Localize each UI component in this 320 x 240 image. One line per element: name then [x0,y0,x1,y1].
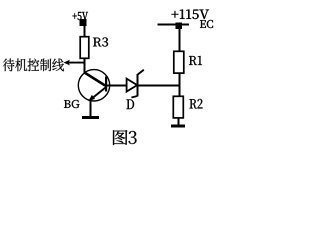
label EC [200,20,213,28]
label R2 [190,99,203,109]
wire R3 to transistor [84,59,86,74]
transistor BG emitter arrowhead [88,95,95,101]
diode D cathode bottom tail [131,96,137,98]
transistor BG base bar [105,77,107,92]
transistor BG collector diagonal [84,72,105,85]
wire R1 to R2 [179,73,181,96]
label +115V [172,10,210,20]
+115V terminal square [176,23,183,30]
diode D cathode top tail [138,70,144,75]
wire standby control line [68,62,86,64]
wire diode to divider node [139,85,181,87]
arrowhead on standby control line [64,60,70,66]
resistor R2 [173,96,183,118]
label standby control line 待机控制线 [3,59,64,72]
ground bar (divider) [171,125,185,128]
label +5V [73,12,89,20]
caption 图3 [113,130,128,145]
wire rail to R1 [179,29,181,51]
wire R2 to ground [178,118,180,125]
resistor R3 [80,37,89,59]
label BG [64,100,80,108]
+115V rail [158,24,190,26]
label R3 [93,38,108,47]
wire emitter to ground [90,100,92,117]
diode D triangle [127,79,138,92]
+5V terminal square [80,19,87,26]
label D [127,100,135,110]
label R1 [189,56,202,65]
transistor BG circle [78,70,109,101]
wire +5V terminal to R3 [84,26,86,37]
transistor BG emitter diagonal [90,88,105,100]
wire base to diode D [107,85,127,87]
diode D cathode bar (zener) [137,74,139,96]
ground bar (emitter) [82,116,99,119]
resistor R1 [174,51,184,73]
